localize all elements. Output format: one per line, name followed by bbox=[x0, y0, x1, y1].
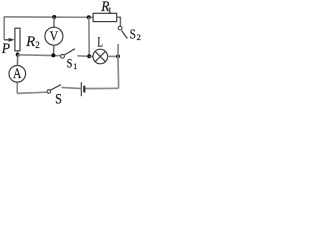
svg-text:S: S bbox=[130, 27, 136, 42]
background bbox=[0, 0, 142, 106]
switch S2 blade bbox=[122, 31, 128, 39]
resistor R1 bbox=[93, 13, 117, 21]
wire: V meter bottom stub bbox=[53, 45, 55, 55]
node: junction dot on right rail at lamp wire bbox=[116, 54, 120, 58]
svg-text:S: S bbox=[67, 57, 73, 71]
battery BT1 negative short thick plate bbox=[83, 86, 85, 93]
wire: R2 bottom stub to junction bbox=[17, 51, 19, 55]
wire: bottom right from corner to battery bbox=[84, 87, 118, 89]
node: junction dot on top wire at lamp branch bbox=[87, 15, 91, 19]
resistor R2 (rheostat body) bbox=[15, 28, 20, 51]
svg-text:A: A bbox=[13, 66, 22, 82]
svg-text:V: V bbox=[50, 29, 59, 44]
switch S open contact circle bbox=[47, 90, 51, 94]
wire: wiper arrow shaft P bbox=[4, 39, 10, 41]
wire: S1 to lamp junction bbox=[77, 55, 89, 58]
lamp L cross diagonals bbox=[95, 51, 105, 61]
svg-text:P: P bbox=[1, 41, 10, 57]
wire: R1 right side to S2 bbox=[117, 17, 121, 26]
switch S blade bbox=[50, 85, 61, 91]
svg-text:2: 2 bbox=[35, 40, 40, 50]
battery BT1 positive long plate bbox=[80, 82, 82, 96]
arrowhead of wiper pointing at R2 bbox=[9, 38, 15, 42]
node: junction dot below R2 bbox=[16, 53, 20, 57]
wire: A meter top stub from middle junction bbox=[16, 55, 18, 66]
switch S1 blade bbox=[65, 49, 75, 55]
node: junction dot below V on middle wire bbox=[51, 53, 55, 57]
wire: A meter bottom stub down to bottom wire corner bbox=[16, 82, 18, 93]
switch S2 open contact circle bbox=[118, 26, 122, 30]
voltmeter U1 V bbox=[45, 27, 63, 45]
wire: top horizontal from left corner to R1 bbox=[4, 16, 93, 18]
lamp L circle bbox=[93, 49, 108, 64]
node: junction dot on top wire above V bbox=[52, 15, 56, 19]
wire: bottom left from contact to corner below A bbox=[17, 92, 47, 93]
wire: middle horizontal from R2 junction to S1 contact bbox=[18, 54, 61, 57]
ammeter U2 A bbox=[9, 66, 26, 83]
svg-text:1: 1 bbox=[73, 62, 77, 71]
wire: lamp left stub bbox=[89, 55, 93, 57]
switch S1 open contact circle bbox=[61, 54, 65, 58]
wire: right rail vertical from below S2 down to bottom corner bbox=[117, 44, 120, 88]
svg-text:S: S bbox=[55, 91, 62, 106]
wire: left vertical down to wiper arrow bbox=[3, 16, 5, 40]
wire: battery to switch S blade side bbox=[62, 87, 82, 88]
wire: V meter top stub bbox=[53, 17, 55, 27]
svg-text:R: R bbox=[25, 34, 35, 50]
node: junction dot left of lamp bbox=[87, 54, 91, 58]
svg-text:1: 1 bbox=[108, 5, 112, 15]
svg-text:2: 2 bbox=[137, 32, 141, 42]
wire: lamp right to right-rail junction bbox=[108, 55, 118, 57]
wire: lamp branch vertical from top wire down to lamp wire bbox=[88, 17, 90, 56]
svg-text:L: L bbox=[97, 34, 103, 49]
